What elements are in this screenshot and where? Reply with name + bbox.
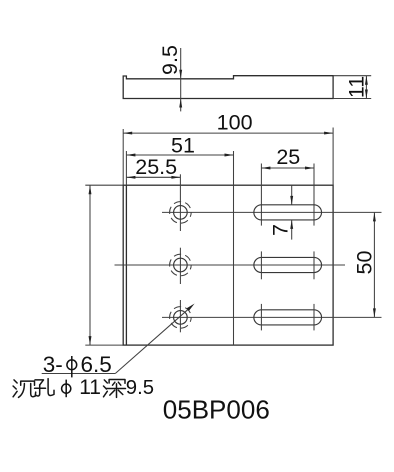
note text: counterbore phi 11 depth 9.5 (Chinese) — [13, 379, 54, 398]
svg-text:9.5: 9.5 — [158, 45, 182, 75]
dim 25 extension lines (through slot 1 arc centers) — [261, 164, 314, 226]
hole 2 vertical centerline — [179, 248, 181, 284]
svg-text:3-: 3- — [43, 352, 63, 377]
row 2 centerline — [115, 264, 346, 266]
note text 3-phi6.5 — [43, 352, 112, 377]
svg-text:9.5: 9.5 — [126, 377, 154, 399]
hole 3 vertical centerline — [179, 300, 181, 332]
dim 25.5 (to hole column) — [126, 176, 180, 178]
dim 9.5 (milled depth) — [180, 48, 182, 111]
slot 3 (7 x 25 slotted hole) — [254, 310, 322, 325]
hole 3 (phi 6.5 with phi 11 counterbore) — [170, 307, 192, 329]
step edge line — [233, 185, 235, 345]
slot 3 arc-center tick marks — [261, 304, 314, 331]
svg-text:6.5: 6.5 — [81, 352, 112, 377]
dim 51 extension lines — [126, 151, 233, 185]
svg-text:11: 11 — [345, 76, 369, 98]
svg-text:25: 25 — [276, 145, 300, 169]
row 3 centerline — [162, 316, 382, 318]
dim 50 (row spacing) — [373, 212, 375, 317]
slot 2 arc-center tick marks — [261, 251, 314, 279]
hole 1 vertical centerline — [179, 174, 181, 231]
svg-text:50: 50 — [352, 251, 376, 275]
dim 51 (to step edge) — [126, 154, 233, 156]
char chen (sink) — [13, 380, 17, 397]
svg-text:100: 100 — [217, 111, 253, 135]
hole 2 (phi 6.5 with phi 11 counterbore) — [170, 254, 192, 276]
dim 100 extension lines — [123, 128, 333, 186]
svg-text:11: 11 — [79, 376, 101, 399]
slot 2 (7 x 25 slotted hole) — [254, 257, 322, 272]
svg-text:05BP006: 05BP006 — [163, 394, 270, 424]
lip edge line — [125, 185, 127, 345]
svg-text:25.5: 25.5 — [135, 155, 177, 179]
char kong (hole) — [35, 380, 44, 385]
svg-text:7: 7 — [269, 224, 293, 236]
svg-text:51: 51 — [171, 134, 195, 158]
leader line to counterbored hole 3 — [42, 309, 189, 373]
plan outline (top view of plate) — [123, 185, 333, 345]
dim 25 (slot length) — [261, 167, 314, 169]
dim 7 (slot width) — [291, 185, 293, 239]
phi symbol (counterbore dia) — [62, 380, 71, 398]
dim 11 (plate thickness) — [365, 76, 367, 99]
extension lines for dim 11 — [333, 76, 371, 99]
hole 1 (phi 6.5 with phi 11 counterbore) — [170, 202, 192, 224]
left overall-height dimension line (unlabeled) — [89, 185, 91, 345]
dim 100 (overall width) — [123, 132, 333, 134]
profile outline (side view of plate) — [123, 76, 333, 99]
extension lines: plan top/bottom edges extended left — [85, 185, 123, 345]
slot 1 (7 x 25 slotted hole) — [254, 205, 322, 220]
row 1 centerline — [162, 211, 382, 213]
char shen (deep) — [104, 380, 108, 397]
